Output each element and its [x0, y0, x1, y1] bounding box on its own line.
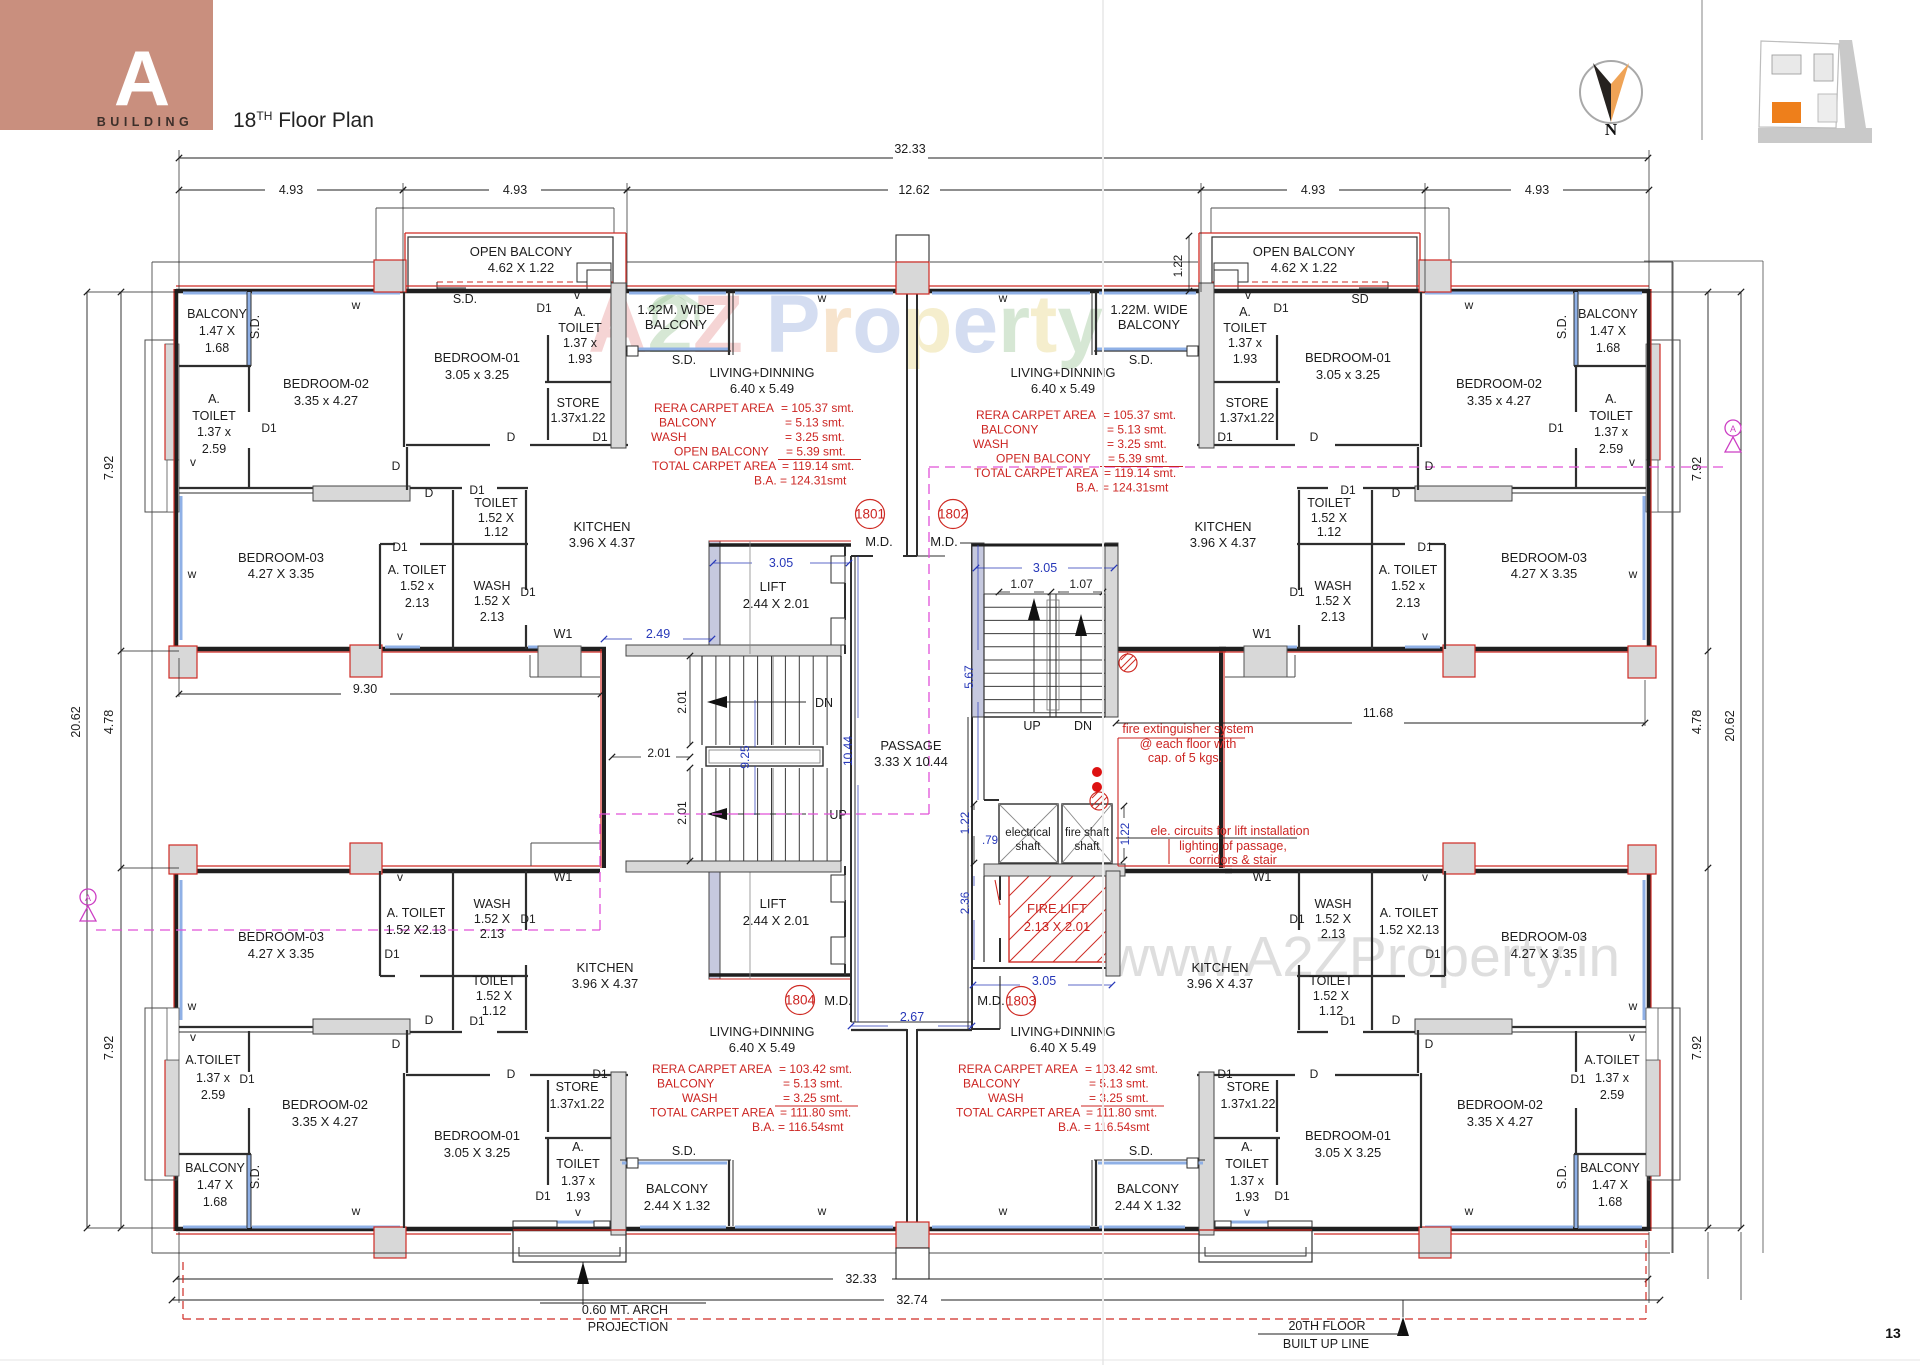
exterior walls top-left unit [176, 289, 906, 294]
svg-text:A.: A. [1239, 305, 1251, 319]
svg-text:WASH: WASH [988, 1091, 1024, 1105]
svg-text:1.07: 1.07 [1010, 577, 1034, 591]
svg-text:v: v [1245, 288, 1251, 302]
svg-text:BALCONY: BALCONY [1118, 317, 1180, 332]
svg-text:9.30: 9.30 [353, 682, 377, 696]
1.22 dim right open balcony [1188, 236, 1190, 291]
svg-text:v: v [1629, 1030, 1635, 1044]
bottom lift box [709, 973, 851, 977]
20th floor built up line label [1402, 1300, 1404, 1317]
svg-text:= 111.80 smt.: = 111.80 smt. [780, 1106, 851, 1120]
svg-text:D: D [392, 459, 401, 473]
north compass [1580, 61, 1642, 123]
svg-text:TOILET: TOILET [558, 321, 602, 335]
balcony 1.47 walls bottom [1575, 1154, 1578, 1228]
svg-text:A.TOILET: A.TOILET [185, 1053, 241, 1067]
stairwell (left) treads [702, 656, 827, 861]
svg-text:2.59: 2.59 [1600, 1088, 1624, 1102]
svg-text:A.: A. [208, 392, 220, 406]
svg-text:= 5.39 smt.: = 5.39 smt. [1108, 452, 1168, 466]
svg-text:KITCHEN: KITCHEN [576, 960, 633, 975]
svg-text:1.22: 1.22 [1120, 823, 1132, 845]
svg-text:S.D.: S.D. [1555, 315, 1569, 339]
svg-text:D: D [507, 430, 516, 444]
svg-text:D1: D1 [384, 947, 400, 961]
exterior walls bottom-left unit [176, 1227, 906, 1232]
party wall top units [906, 294, 908, 556]
overall top dimension 32.33 [179, 157, 893, 159]
svg-text:4.27 X 3.35: 4.27 X 3.35 [248, 566, 315, 581]
site location icon [1758, 128, 1872, 143]
svg-text:= 103.42 smt.: = 103.42 smt. [779, 1062, 852, 1076]
svg-text:RERA CARPET AREA: RERA CARPET AREA [958, 1062, 1078, 1076]
svg-text:1802: 1802 [938, 507, 968, 522]
svg-text:BALCONY: BALCONY [185, 1161, 245, 1175]
open balcony [1199, 232, 1420, 234]
svg-text:BALCONY: BALCONY [1117, 1181, 1179, 1196]
svg-text:32.74: 32.74 [896, 1293, 927, 1307]
svg-text:TOTAL CARPET AREA: TOTAL CARPET AREA [652, 459, 776, 473]
svg-text:WASH: WASH [651, 430, 687, 444]
svg-text:4.27 X 3.35: 4.27 X 3.35 [1511, 566, 1578, 581]
svg-text:FIRE LIFT: FIRE LIFT [1027, 901, 1087, 916]
svg-text:D1: D1 [469, 483, 485, 497]
svg-text:S.D.: S.D. [672, 353, 696, 367]
svg-text:3.35 X 4.27: 3.35 X 4.27 [1467, 1114, 1534, 1129]
svg-text:A: A [1730, 424, 1736, 434]
svg-text:1.52 X: 1.52 X [478, 511, 515, 525]
svg-text:fire extinguisher system: fire extinguisher system [1122, 722, 1253, 736]
svg-text:OPEN BALCONY: OPEN BALCONY [1253, 244, 1356, 259]
svg-text:1.68: 1.68 [1598, 1195, 1622, 1209]
thin projection outline top-left [152, 261, 404, 263]
svg-text:A. TOILET: A. TOILET [387, 906, 446, 920]
left wall windows [1643, 496, 1646, 640]
svg-text:BEDROOM-03: BEDROOM-03 [1501, 550, 1587, 565]
entry canopy below [1199, 1230, 1312, 1262]
red dashed 20th floor built up line [183, 1318, 1646, 1320]
svg-text:4.27 X 3.35: 4.27 X 3.35 [248, 946, 315, 961]
svg-text:13: 13 [1885, 1325, 1901, 1341]
svg-text:0.60 MT. ARCH: 0.60 MT. ARCH [582, 1303, 668, 1317]
thick gray wall right of store [1199, 283, 1214, 448]
svg-text:STORE: STORE [1226, 396, 1269, 410]
svg-text:D1: D1 [535, 1189, 551, 1203]
svg-text:1.52 X: 1.52 X [476, 989, 513, 1003]
svg-text:TOILET: TOILET [1589, 409, 1633, 423]
svg-text:1.52 X2.13: 1.52 X2.13 [1379, 923, 1440, 937]
svg-text:M.D.: M.D. [824, 993, 851, 1008]
1.22M wide balcony [626, 350, 731, 352]
stair core left wall [602, 649, 606, 868]
svg-text:1.07: 1.07 [1069, 577, 1093, 591]
svg-text:1.93: 1.93 [568, 352, 592, 366]
svg-text:corridors & stair: corridors & stair [1189, 853, 1277, 867]
columns top-left [1419, 260, 1451, 292]
svg-text:2.59: 2.59 [202, 442, 226, 456]
svg-text:2.13 X 2.01: 2.13 X 2.01 [1024, 919, 1091, 934]
svg-text:2.44 X 1.32: 2.44 X 1.32 [644, 1198, 711, 1213]
stair landing [706, 747, 823, 766]
svg-text:A: A [114, 34, 170, 122]
svg-text:PASSAGE: PASSAGE [880, 738, 942, 753]
svg-text:v: v [1422, 629, 1428, 643]
svg-text:1.22: 1.22 [1173, 255, 1185, 277]
top dimension row 4.93/4.93/12.62/4.93/4.93 [179, 189, 265, 191]
toilet & wash block bottom [380, 975, 395, 977]
svg-text:6.40 x 5.49: 6.40 x 5.49 [730, 381, 794, 396]
svg-text:3.96 X 4.37: 3.96 X 4.37 [572, 976, 639, 991]
svg-text:D1: D1 [239, 1072, 255, 1086]
svg-text:1.68: 1.68 [205, 341, 229, 355]
svg-text:TOTAL CARPET AREA: TOTAL CARPET AREA [974, 466, 1098, 480]
svg-text:= 5.13 smt.: = 5.13 smt. [1089, 1077, 1149, 1091]
open balcony [405, 232, 626, 234]
svg-text:1.22M. WIDE: 1.22M. WIDE [1110, 302, 1188, 317]
svg-text:D1: D1 [1217, 430, 1233, 444]
top center column and stub [896, 235, 929, 262]
svg-text:D1: D1 [592, 1067, 608, 1081]
svg-text:1.47 X: 1.47 X [1592, 1178, 1629, 1192]
svg-text:= 3.25 smt.: = 3.25 smt. [1089, 1091, 1149, 1105]
svg-text:D: D [1310, 430, 1319, 444]
window bands top wall (blue) [183, 292, 247, 295]
svg-text:A.TOILET: A.TOILET [1584, 1053, 1640, 1067]
svg-text:v: v [1422, 870, 1428, 884]
svg-text:PROJECTION: PROJECTION [588, 1320, 669, 1334]
svg-text:1.37x1.22: 1.37x1.22 [1221, 1097, 1276, 1111]
bottom wall of unit + windows [1219, 651, 1649, 653]
svg-text:4.93: 4.93 [279, 183, 303, 197]
balcony 1.47 walls [248, 292, 251, 366]
svg-text:4.93: 4.93 [1301, 183, 1325, 197]
svg-text:1.52 X2.13: 1.52 X2.13 [386, 923, 447, 937]
1.22M wide balcony [1094, 350, 1199, 352]
svg-text:D1: D1 [469, 1014, 485, 1028]
balcony 1.47 walls [1575, 292, 1578, 366]
svg-text:D: D [1425, 1037, 1434, 1051]
svg-text:BALCONY: BALCONY [646, 1181, 708, 1196]
svg-text:1.37 x: 1.37 x [1228, 336, 1263, 350]
svg-text:3.96 X 4.37: 3.96 X 4.37 [1190, 535, 1257, 550]
svg-text:D: D [1392, 486, 1401, 500]
svg-text:1.47 X: 1.47 X [197, 1178, 234, 1192]
right unit 1803 top wall extension [1116, 869, 1232, 874]
svg-text:w: w [1464, 298, 1474, 312]
svg-text:3.35 x 4.27: 3.35 x 4.27 [294, 393, 358, 408]
svg-text:= 119.14 smt.: = 119.14 smt. [1104, 466, 1176, 480]
svg-text:3.05: 3.05 [1032, 974, 1056, 988]
svg-text:W1: W1 [554, 627, 573, 641]
svg-text:3.96 X 4.37: 3.96 X 4.37 [569, 535, 636, 550]
svg-text:W1: W1 [1253, 870, 1272, 884]
svg-text:3.05 x 3.25: 3.05 x 3.25 [1316, 367, 1380, 382]
svg-text:D1: D1 [1274, 1189, 1290, 1203]
svg-text:RERA CARPET AREA: RERA CARPET AREA [652, 1062, 772, 1076]
svg-text:BEDROOM-01: BEDROOM-01 [1305, 350, 1391, 365]
svg-text:A.: A. [1605, 392, 1617, 406]
svg-text:1.37 x: 1.37 x [563, 336, 598, 350]
bedroom-02 / corridor divider wall [1512, 487, 1646, 489]
svg-text:D: D [392, 1037, 401, 1051]
svg-text:= 3.25 smt.: = 3.25 smt. [1107, 437, 1167, 451]
svg-text:3.33 X 10.44: 3.33 X 10.44 [874, 754, 948, 769]
svg-text:1.52 X: 1.52 X [1313, 989, 1350, 1003]
svg-text:B.A. = 116.54smt: B.A. = 116.54smt [752, 1120, 844, 1134]
svg-text:= 103.42 smt.: = 103.42 smt. [1085, 1062, 1158, 1076]
bedroom-01 top wall bottom unit [406, 1074, 490, 1076]
svg-text:3.35 x 4.27: 3.35 x 4.27 [1467, 393, 1531, 408]
svg-text:3.05 X 3.25: 3.05 X 3.25 [1315, 1145, 1382, 1160]
svg-text:BALCONY: BALCONY [1578, 307, 1638, 321]
flat number circle [856, 500, 885, 529]
svg-text:w: w [187, 999, 197, 1013]
svg-text:BEDROOM-02: BEDROOM-02 [283, 376, 369, 391]
fire lift hatched [1009, 871, 1106, 962]
left window bay outline bottom [145, 1008, 177, 1180]
svg-text:1.12: 1.12 [1317, 525, 1341, 539]
toilet & wash block walls [1430, 543, 1445, 545]
passage bottom wall [851, 1021, 972, 1023]
columns bottom-left [169, 845, 197, 874]
svg-text:1803: 1803 [1006, 994, 1036, 1009]
svg-text:1.22M. WIDE: 1.22M. WIDE [637, 302, 715, 317]
svg-text:BEDROOM-02: BEDROOM-02 [1457, 1097, 1543, 1112]
svg-text:BEDROOM-01: BEDROOM-01 [434, 350, 520, 365]
svg-text:D1: D1 [1548, 421, 1564, 435]
svg-text:3.05: 3.05 [769, 556, 793, 570]
svg-text:D: D [507, 1067, 516, 1081]
svg-text:cap. of 5 kgs.: cap. of 5 kgs. [1148, 751, 1222, 765]
svg-text:4.78: 4.78 [102, 710, 116, 734]
svg-text:A. TOILET: A. TOILET [1380, 906, 1439, 920]
svg-text:shaft: shaft [1075, 841, 1101, 853]
left wall windows bottom [1643, 880, 1646, 1020]
bedroom-01 a.toilet walls [547, 335, 549, 382]
svg-text:= 3.25 smt.: = 3.25 smt. [785, 430, 845, 444]
step outside stair core [529, 655, 531, 677]
svg-text:w: w [817, 291, 827, 305]
svg-text:2.13: 2.13 [1321, 610, 1345, 624]
svg-text:STORE: STORE [557, 396, 600, 410]
svg-text:4.62 X 1.22: 4.62 X 1.22 [1271, 260, 1338, 275]
svg-text:TOILET: TOILET [1307, 496, 1351, 510]
svg-text:= 105.37 smt.: = 105.37 smt. [1103, 408, 1176, 422]
svg-text:7.92: 7.92 [1690, 457, 1704, 481]
svg-text:S.D.: S.D. [1129, 353, 1153, 367]
svg-text:32.33: 32.33 [894, 142, 925, 156]
svg-text:BALCONY: BALCONY [645, 317, 707, 332]
svg-text:w: w [998, 1204, 1008, 1218]
svg-text:BALCONY: BALCONY [981, 423, 1038, 437]
divider wall bottom [1512, 1026, 1646, 1028]
svg-text:M.D.: M.D. [865, 534, 892, 549]
svg-text:2.13: 2.13 [1396, 596, 1420, 610]
svg-text:2.01: 2.01 [675, 801, 689, 825]
svg-text:TOILET: TOILET [556, 1157, 600, 1171]
svg-text:v: v [574, 288, 580, 302]
watermark house icon [648, 292, 704, 326]
svg-text:1.68: 1.68 [203, 1195, 227, 1209]
svg-text:D1: D1 [1289, 585, 1305, 599]
svg-text:2.44 X 2.01: 2.44 X 2.01 [743, 913, 810, 928]
svg-text:WASH: WASH [1314, 897, 1351, 911]
window bands top wall (blue) [1578, 292, 1642, 295]
right dimension lines 7.92/4.78/20.62 [1707, 292, 1709, 1228]
svg-text:w: w [817, 1204, 827, 1218]
svg-text:lighting of passage,: lighting of passage, [1179, 839, 1287, 853]
svg-text:D1: D1 [1289, 912, 1305, 926]
DN arrow [716, 701, 806, 703]
svg-text:TOILET: TOILET [472, 974, 516, 988]
svg-text:1.37 x: 1.37 x [561, 1174, 596, 1188]
svg-text:20.62: 20.62 [69, 706, 83, 737]
bottom wall of unit + windows [176, 651, 606, 653]
svg-text:12.62: 12.62 [898, 183, 929, 197]
svg-text:S.D.: S.D. [248, 1165, 262, 1189]
kitchen right wall = lift shaft left (top) [709, 541, 720, 654]
svg-text:BEDROOM-02: BEDROOM-02 [1456, 376, 1542, 391]
svg-text:B.A. = 124.31smt: B.A. = 124.31smt [1076, 481, 1169, 495]
svg-text:= 5.13 smt.: = 5.13 smt. [1107, 423, 1167, 437]
svg-text:A. TOILET: A. TOILET [388, 563, 447, 577]
svg-text:D1: D1 [1417, 540, 1433, 554]
svg-text:TOTAL CARPET AREA: TOTAL CARPET AREA [650, 1106, 774, 1120]
svg-text:= 111.80 smt.: = 111.80 smt. [1086, 1106, 1157, 1120]
svg-text:LIVING+DINNING: LIVING+DINNING [1010, 365, 1115, 380]
right half mirrored geometry [919, 208, 1680, 1262]
svg-text:WASH: WASH [973, 437, 1009, 451]
svg-text:1.52 X: 1.52 X [474, 594, 511, 608]
svg-text:D1: D1 [392, 540, 408, 554]
balcony 1.47 walls bottom [248, 1154, 251, 1228]
1.07 dims [999, 591, 1010, 593]
svg-text:6.40 X 5.49: 6.40 X 5.49 [729, 1040, 796, 1055]
svg-text:S.D.: S.D. [672, 1144, 696, 1158]
svg-text:1.37x1.22: 1.37x1.22 [1220, 411, 1275, 425]
svg-text:20.62: 20.62 [1723, 710, 1737, 741]
bedroom-02 right wall [1420, 292, 1422, 447]
svg-text:D1: D1 [261, 421, 277, 435]
svg-text:3.05: 3.05 [1033, 561, 1057, 575]
svg-text:w: w [1628, 567, 1638, 581]
svg-text:W1: W1 [1253, 627, 1272, 641]
svg-text:B.A. = 116.54smt: B.A. = 116.54smt [1058, 1120, 1150, 1134]
bottom center column and stub [896, 1222, 929, 1248]
svg-text:1.37x1.22: 1.37x1.22 [550, 1097, 605, 1111]
a.toilet 2.59 walls bottom [1575, 1031, 1577, 1072]
svg-text:1.22: 1.22 [960, 812, 972, 834]
a.toilet 1.37x2.59 walls [1575, 366, 1577, 412]
svg-text:1.93: 1.93 [1235, 1190, 1259, 1204]
svg-text:TOILET: TOILET [474, 496, 518, 510]
svg-text:= 3.25 smt.: = 3.25 smt. [783, 1091, 843, 1105]
svg-text:TOILET: TOILET [1309, 974, 1353, 988]
svg-text:BALCONY: BALCONY [1580, 1161, 1640, 1175]
svg-text:= 5.13 smt.: = 5.13 smt. [785, 416, 845, 430]
svg-text:2.01: 2.01 [675, 690, 689, 714]
svg-text:DN: DN [815, 696, 833, 710]
flat number circle [939, 500, 968, 529]
svg-text:1.52 x: 1.52 x [400, 579, 435, 593]
bottom dimension 32.74 [172, 1299, 884, 1301]
svg-text:LIFT: LIFT [760, 579, 787, 594]
svg-text:v: v [575, 1205, 581, 1219]
M.D. door head walls top [851, 555, 873, 557]
bedroom-01 bottom wall [1335, 444, 1419, 446]
svg-text:9.25: 9.25 [738, 745, 752, 769]
svg-text:D: D [1310, 1067, 1319, 1081]
svg-text:v: v [1244, 1205, 1250, 1219]
svg-text:STORE: STORE [556, 1080, 599, 1094]
svg-text:6.40 x 5.49: 6.40 x 5.49 [1031, 381, 1095, 396]
thick gray wall right of store [611, 283, 626, 448]
3.05 dim top lift [713, 562, 752, 564]
9.30 dim [179, 693, 341, 695]
top lift box [709, 543, 851, 547]
svg-text:1.93: 1.93 [566, 1190, 590, 1204]
svg-text:1.37 x: 1.37 x [197, 425, 232, 439]
svg-text:2.36: 2.36 [960, 892, 972, 914]
svg-text:BEDROOM-03: BEDROOM-03 [238, 550, 324, 565]
svg-text:7.92: 7.92 [102, 456, 116, 480]
svg-text:TOILET: TOILET [192, 409, 236, 423]
svg-text:3.05 x 3.25: 3.05 x 3.25 [445, 367, 509, 382]
exterior walls bottom-left unit [919, 1227, 1649, 1232]
step outside stair core [1294, 655, 1296, 677]
left dimension lines 20.62 / 7.92 / 4.78 [86, 292, 88, 1228]
bedroom-02 right wall bottom [403, 1073, 405, 1228]
thin projection outline top-left [1421, 261, 1673, 263]
svg-text:2.67: 2.67 [900, 1010, 924, 1024]
0.60 MT arch projection label [582, 1262, 584, 1305]
svg-text:D1: D1 [1570, 1072, 1586, 1086]
svg-text:WASH: WASH [682, 1091, 718, 1105]
svg-text:WASH: WASH [473, 897, 510, 911]
svg-text:LIVING+DINNING: LIVING+DINNING [1010, 1024, 1115, 1039]
svg-text:UP: UP [829, 808, 846, 822]
bedroom-01 bottom wall [406, 444, 490, 446]
stair top wall gray band [626, 645, 841, 656]
balcony 2.44 bottom [1098, 1162, 1203, 1165]
svg-text:1.37 x: 1.37 x [1594, 425, 1629, 439]
svg-text:2.13: 2.13 [405, 596, 429, 610]
svg-text:BALCONY: BALCONY [963, 1077, 1020, 1091]
bedroom-01 top wall bottom unit [1335, 1074, 1419, 1076]
svg-text:S.D.: S.D. [453, 292, 477, 306]
svg-text:KITCHEN: KITCHEN [1191, 960, 1248, 975]
svg-text:N: N [1605, 120, 1618, 139]
svg-text:1.37 x: 1.37 x [1595, 1071, 1630, 1085]
svg-text:4.93: 4.93 [1525, 183, 1549, 197]
svg-text:A.: A. [572, 1140, 584, 1154]
left window bay outline [145, 340, 177, 512]
svg-text:4.27 X 3.35: 4.27 X 3.35 [1511, 946, 1578, 961]
svg-text:KITCHEN: KITCHEN [1194, 519, 1251, 534]
svg-text:D: D [1425, 459, 1434, 473]
svg-text:2.59: 2.59 [201, 1088, 225, 1102]
corridor walls right bottom [972, 1028, 1000, 1030]
kitchen ledge 1803 [1116, 837, 1297, 839]
svg-text:1801: 1801 [855, 507, 885, 522]
entry canopy below [513, 1230, 626, 1262]
left window bay outline [1648, 340, 1680, 512]
svg-text:D1: D1 [1217, 1067, 1233, 1081]
UP arrow [716, 813, 806, 815]
svg-text:w: w [351, 1204, 361, 1218]
svg-text:w: w [351, 298, 361, 312]
svg-text:.79: .79 [982, 835, 998, 847]
